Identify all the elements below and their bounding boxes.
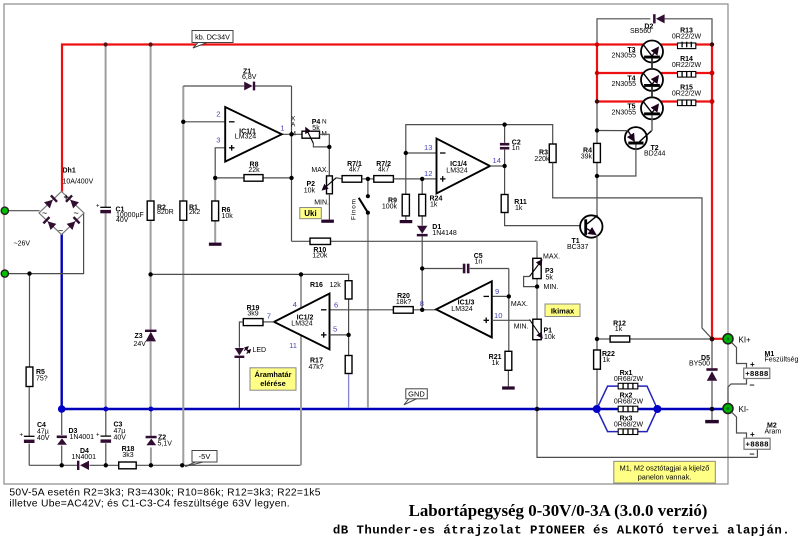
- wire: R11 column: [504, 166, 506, 195]
- wire: -5V rail: [29, 464, 79, 466]
- svg-text:dB Thunder-es átrajzolat PIONE: dB Thunder-es átrajzolat PIONEER és ALKO…: [333, 523, 790, 537]
- resistor R17: [345, 356, 352, 374]
- label M1 M2 note yellow: [614, 461, 716, 483]
- svg-text:8: 8: [420, 299, 424, 308]
- svg-text:A: A: [291, 122, 296, 129]
- svg-text:5: 5: [333, 324, 337, 333]
- wire: M2 minus down: [756, 449, 758, 457]
- wire: pin9 stub: [492, 295, 509, 297]
- svg-text:–: –: [750, 449, 755, 459]
- svg-text:MAX.: MAX.: [511, 301, 528, 308]
- svg-text:~: ~: [74, 208, 79, 218]
- wire: KI+ to M1 plus: [732, 342, 747, 368]
- ground below KI-: [705, 420, 719, 423]
- svg-text:BC337: BC337: [567, 244, 589, 251]
- svg-text:+8888: +8888: [745, 369, 768, 378]
- wire: R16 R17 column: [348, 299, 350, 356]
- wire: P3 P1 column: [536, 241, 538, 408]
- wire: KI- to M2 plus: [732, 412, 747, 438]
- svg-text:Uki: Uki: [304, 209, 316, 218]
- wire: D5 column: [711, 339, 713, 368]
- svg-text:1k: 1k: [615, 326, 623, 333]
- resistor R3: [549, 144, 556, 163]
- svg-text:3k3: 3k3: [122, 452, 133, 459]
- svg-text:GND: GND: [408, 389, 425, 398]
- wire: pin5 stub: [330, 334, 349, 336]
- label GND bubble: [404, 389, 427, 405]
- svg-text:MAX.: MAX.: [543, 254, 560, 261]
- svg-text:BY500: BY500: [689, 361, 710, 368]
- svg-text:N: N: [322, 118, 327, 125]
- svg-text:10k: 10k: [304, 188, 316, 195]
- svg-text:~: ~: [42, 208, 47, 218]
- svg-text:LM324: LM324: [446, 167, 468, 174]
- resistor R14: [672, 56, 702, 77]
- resistor R7/2: [374, 176, 394, 183]
- diode D5: [689, 355, 718, 381]
- op-amp IC1/3: [436, 281, 492, 337]
- svg-text:820R: 820R: [157, 209, 174, 216]
- svg-text:14: 14: [493, 156, 501, 165]
- svg-text:Ikimax: Ikimax: [551, 306, 575, 315]
- junction dots top right: [595, 42, 599, 46]
- wire: LED to GND rail: [238, 358, 240, 408]
- ground below R6: [209, 243, 222, 246]
- terminal KI-: [723, 404, 733, 414]
- wire: M1 minus to KI-: [728, 379, 747, 404]
- svg-text:12k: 12k: [330, 282, 342, 289]
- resistor R18: [119, 462, 137, 469]
- svg-text:1n: 1n: [512, 145, 520, 152]
- svg-text:3k9: 3k9: [247, 311, 258, 318]
- resistor Rx1: [614, 370, 644, 389]
- transistor T1: [567, 215, 603, 251]
- svg-text:50V-5A esetén R2=3k3; R3=430k;: 50V-5A esetén R2=3k3; R3=430k; R10=86k; …: [9, 488, 320, 499]
- wire: IC1/1 pin1 output: [282, 133, 302, 135]
- zener Z3: [134, 330, 157, 348]
- svg-text:Áramhatár: Áramhatár: [255, 370, 292, 379]
- svg-text:~26V: ~26V: [14, 240, 31, 247]
- wire: IC supply pin11 column to -5V: [300, 274, 302, 465]
- capacitor C1: [96, 204, 144, 225]
- label Aramhatar yellow: [250, 368, 296, 390]
- svg-text:0R22/2W: 0R22/2W: [672, 62, 702, 69]
- wire: GND blue rail: [62, 234, 724, 409]
- wire: R3 bottom to KI+ sense: [553, 163, 712, 339]
- transistor T3: [611, 41, 663, 63]
- svg-text:MAX.: MAX.: [311, 167, 328, 174]
- junction dots middle: [420, 266, 424, 270]
- svg-text:10A/400V: 10A/400V: [63, 179, 94, 186]
- svg-text:SB560: SB560: [630, 28, 651, 35]
- svg-text:kb. DC34V: kb. DC34V: [195, 32, 230, 41]
- potentiometer P2: [304, 167, 337, 207]
- svg-text:Finom: Finom: [351, 198, 358, 220]
- svg-text:2N3055: 2N3055: [611, 109, 636, 116]
- svg-text:40V: 40V: [116, 217, 129, 224]
- wire: R10 row to P3: [292, 240, 311, 242]
- svg-text:Dh1: Dh1: [63, 168, 76, 175]
- svg-text:10: 10: [494, 311, 502, 320]
- potentiometer P4: [302, 119, 320, 143]
- resistor R1: [180, 201, 187, 220]
- terminal: AC input top: [1, 207, 8, 214]
- wire: M2 minus sense to shunt left: [537, 409, 757, 457]
- wire: R19 to LED: [239, 322, 243, 348]
- svg-text:LM324: LM324: [235, 134, 257, 141]
- wire: D2 bypass path: [597, 19, 650, 45]
- wire: R24 D1 column: [421, 179, 423, 194]
- svg-text:+: +: [96, 204, 100, 210]
- wire: Z2 column: [150, 409, 152, 436]
- wire: T2 base to R4 node: [597, 130, 628, 132]
- capacitor C5: [463, 253, 483, 273]
- wire: IC1/4 pin13: [406, 152, 437, 154]
- zener Z2: [146, 435, 173, 448]
- potentiometer P3: [530, 254, 561, 292]
- wire: pin10 to P1 wiper: [492, 319, 530, 321]
- wire: IC1/1 pin2: [183, 121, 225, 123]
- wire: red vertical right rail to KI+: [711, 45, 713, 339]
- svg-text:KI+: KI+: [739, 335, 752, 344]
- wire: P2 bottom to ground: [328, 194, 330, 220]
- resistor R21: [505, 351, 512, 370]
- svg-text:1n: 1n: [475, 259, 483, 266]
- wire: Z1 feedback loop top: [183, 85, 244, 87]
- resistor Rx3: [614, 416, 644, 435]
- meter module M2: [744, 423, 781, 459]
- resistor R22: [594, 350, 601, 369]
- terminal KI+: [723, 334, 733, 344]
- svg-text:KI-: KI-: [739, 405, 750, 414]
- svg-text:1k: 1k: [603, 357, 611, 364]
- svg-text:0R22/2W: 0R22/2W: [672, 33, 702, 40]
- label Ikimax yellow: [545, 304, 580, 317]
- wire: +34V red rail: [62, 45, 597, 192]
- junction dots left/top: [104, 42, 108, 46]
- wire: T2 emitter bottom: [599, 145, 636, 177]
- resistor R12: [610, 336, 630, 342]
- wire: red vertical to pass transistors: [596, 45, 598, 102]
- op-amp IC1/1: [225, 107, 282, 162]
- wire: R5 C4 column: [29, 274, 31, 367]
- capacitor C2: [500, 125, 521, 166]
- wire: R12 row: [597, 338, 610, 340]
- svg-text:120k: 120k: [312, 253, 328, 260]
- capacitor C3: [96, 422, 126, 443]
- svg-text:LM324: LM324: [451, 306, 473, 313]
- svg-text:+: +: [750, 360, 755, 369]
- potentiometer P1: [511, 301, 556, 341]
- svg-text:40V: 40V: [114, 435, 127, 442]
- wire: pin13 feedback column and C2 line: [406, 125, 553, 195]
- svg-text:+: +: [64, 192, 69, 202]
- svg-text:4: 4: [293, 300, 297, 309]
- svg-text:0R68/2W: 0R68/2W: [614, 399, 644, 406]
- svg-text:M1, M2 osztótagjai a kijelző: M1, M2 osztótagjai a kijelző: [620, 463, 710, 472]
- wire: R6 column to ground: [214, 178, 216, 243]
- svg-text:LED: LED: [253, 347, 267, 354]
- svg-text:Labortápegység 0-30V/0-3A (3.0: Labortápegység 0-30V/0-3A (3.0.0 verzió): [409, 501, 708, 520]
- svg-text:illetve Ube=AC42V; és C1-C3-C4: illetve Ube=AC42V; és C1-C3-C4 feszültsé…: [9, 499, 290, 510]
- resistor R2: [147, 201, 154, 220]
- wire: red rows to T3 T4 T5: [597, 43, 644, 45]
- transistor T5: [611, 97, 663, 119]
- wire: pin9 column R21: [508, 269, 510, 352]
- svg-text:1N4001: 1N4001: [72, 454, 97, 461]
- svg-text:3: 3: [216, 135, 220, 144]
- svg-text:-5V: -5V: [199, 452, 211, 461]
- wire: R9 to ground: [405, 216, 407, 220]
- ground below P2: [321, 220, 334, 223]
- svg-text:39k: 39k: [581, 154, 593, 161]
- svg-text:24V: 24V: [134, 341, 147, 348]
- svg-text:1k: 1k: [492, 360, 500, 367]
- wire: pin14 output: [490, 165, 505, 167]
- meter module M1: [744, 351, 799, 390]
- diode D4: [72, 448, 97, 470]
- svg-text:12: 12: [424, 169, 432, 178]
- svg-text:100k: 100k: [382, 204, 398, 211]
- svg-text:Feszültség: Feszültség: [765, 357, 799, 364]
- wire: R2 Z3 column: [150, 45, 152, 201]
- resistor R24: [419, 194, 426, 216]
- svg-text:0R22/2W: 0R22/2W: [672, 90, 702, 97]
- svg-text:11: 11: [289, 341, 297, 350]
- svg-text:Áram: Áram: [765, 427, 782, 436]
- svg-text:+: +: [20, 433, 24, 439]
- svg-text:elérése: elérése: [260, 379, 285, 388]
- wire: R22 column: [596, 339, 598, 350]
- svg-text:220k: 220k: [534, 156, 550, 163]
- svg-text:4k7: 4k7: [378, 167, 389, 174]
- terminal: AC input bottom: [1, 270, 8, 277]
- svg-text:panelon vannak.: panelon vannak.: [638, 473, 692, 482]
- svg-text:MIN.: MIN.: [314, 200, 329, 207]
- wire: IC1/1 pin3: [215, 148, 225, 178]
- svg-text:0R68/2W: 0R68/2W: [614, 422, 644, 429]
- zener Z1: [242, 69, 257, 91]
- svg-text:1k: 1k: [515, 205, 523, 212]
- resistor R19: [243, 319, 263, 326]
- wire: P3 wiper step: [524, 277, 538, 287]
- svg-text:R16: R16: [310, 282, 323, 289]
- label Uki yellow: [300, 208, 322, 219]
- wire: R1 feedback column: [182, 86, 184, 201]
- svg-text:5k: 5k: [546, 275, 554, 282]
- svg-text:0R68/2W: 0R68/2W: [614, 376, 644, 383]
- wire: R20 row pin6 to pin8: [330, 309, 394, 311]
- svg-text:4k7: 4k7: [349, 167, 360, 174]
- svg-text:1: 1: [280, 124, 284, 133]
- svg-text:2k2: 2k2: [189, 209, 200, 216]
- wire: T3 T4 T5 base stems: [651, 59, 653, 70]
- resistor R6: [212, 201, 219, 221]
- bridge rectifier Dh1: [39, 192, 84, 236]
- ground below R21: [502, 386, 515, 389]
- svg-text:75?: 75?: [36, 376, 48, 383]
- svg-text:9: 9: [495, 287, 499, 296]
- wire: red stub to KI+ terminal: [712, 338, 724, 340]
- svg-text:1k: 1k: [430, 201, 438, 208]
- resistor R11: [501, 195, 508, 213]
- wire: D3 column: [61, 409, 63, 435]
- svg-text:7: 7: [267, 312, 271, 321]
- wire: T1 emitter to R12 node: [596, 236, 598, 340]
- resistor R5: [26, 367, 33, 387]
- wire: R7 junction row: [362, 178, 374, 180]
- svg-text:MIN.: MIN.: [544, 284, 559, 291]
- svg-text:+: +: [96, 433, 100, 439]
- wire: pin1 feedback column: [291, 86, 293, 241]
- svg-text:47k?: 47k?: [309, 364, 324, 371]
- wire: R7/2 to IC1/4 pin12: [393, 178, 436, 180]
- junction dots bottom: [595, 337, 599, 341]
- svg-text:18k?: 18k?: [396, 299, 411, 306]
- diode D3: [57, 428, 94, 445]
- resistor R9: [402, 194, 409, 216]
- resistor R8: [244, 175, 263, 182]
- svg-text:1N4148: 1N4148: [432, 230, 457, 237]
- svg-text:1N4001: 1N4001: [70, 434, 95, 441]
- label kb. DC34V bubble: [192, 31, 233, 49]
- resistor R15: [672, 84, 702, 105]
- resistor R20: [393, 307, 413, 314]
- svg-text:6,8V: 6,8V: [242, 74, 257, 81]
- wire: P4 to P2: [320, 134, 330, 176]
- wire: input terminal wires: [5, 210, 40, 212]
- wire: P2 wiper to R7 row: [336, 177, 342, 180]
- svg-text:~: ~: [58, 226, 63, 236]
- wire: C1 column: [105, 45, 107, 207]
- wire: supply row to IC pin4 and R16: [151, 274, 349, 280]
- svg-text:40V: 40V: [37, 435, 50, 442]
- svg-text:22k: 22k: [248, 167, 260, 174]
- resistor R10: [310, 238, 331, 244]
- resistor R16: [345, 281, 352, 299]
- wire: R8 row: [215, 177, 291, 179]
- wire: R4 column / T1 collector: [596, 102, 598, 144]
- wire: C5 feedback row: [422, 268, 463, 270]
- transistor T4: [611, 69, 663, 91]
- svg-text:2N3055: 2N3055: [611, 81, 636, 88]
- switch (open, to GND): [351, 194, 371, 220]
- wire: KI- ground stem: [711, 409, 713, 420]
- svg-text:5,1V: 5,1V: [158, 441, 173, 448]
- ground below R9: [400, 220, 413, 223]
- capacitor C4: [20, 422, 50, 443]
- svg-text:2: 2: [216, 110, 220, 119]
- svg-text:13: 13: [424, 143, 432, 152]
- svg-text:5k: 5k: [312, 125, 320, 132]
- resistor R4: [594, 143, 601, 162]
- transistor T2: [625, 127, 666, 157]
- LED: [235, 347, 267, 358]
- svg-text:–: –: [750, 380, 755, 390]
- svg-text:10k: 10k: [222, 213, 234, 220]
- wire: C3 column: [105, 409, 107, 436]
- svg-text:2N3055: 2N3055: [611, 53, 636, 60]
- svg-text:6: 6: [334, 300, 338, 309]
- resistor R7/1: [342, 176, 362, 183]
- svg-text:LM324: LM324: [291, 321, 313, 328]
- op-amp IC1/4: [437, 139, 491, 194]
- svg-text:Z3: Z3: [135, 333, 143, 340]
- shunt Rx network wires: [597, 386, 618, 409]
- resistor Rx2: [614, 393, 644, 412]
- wire: switch column: [367, 179, 369, 196]
- label -5V bubble: [185, 451, 217, 467]
- op-amp IC1/2: [274, 294, 330, 350]
- svg-text:BD244: BD244: [644, 151, 666, 158]
- svg-text:MIN.: MIN.: [514, 324, 529, 331]
- diode D1: [417, 224, 457, 237]
- svg-text:10k: 10k: [544, 334, 556, 341]
- diode D2: [630, 14, 665, 35]
- resistor R13: [672, 27, 702, 48]
- wire: pin7 output to R19: [263, 321, 274, 323]
- svg-text:+8888: +8888: [746, 440, 769, 449]
